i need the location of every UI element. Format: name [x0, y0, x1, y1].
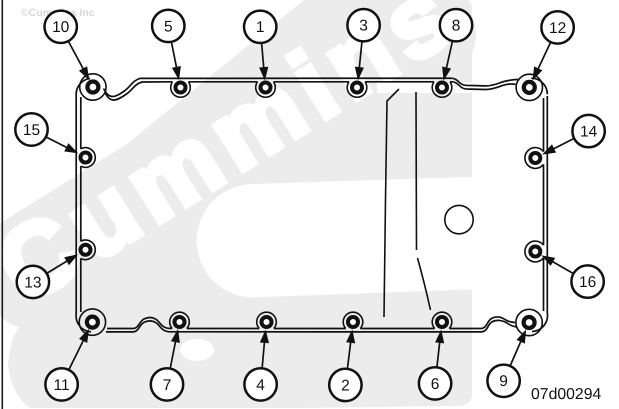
- gasket top boss arc: [171, 82, 191, 97]
- leader arrow for callout 16: [551, 261, 574, 274]
- corner boss around hole 9: [516, 309, 542, 335]
- gasket right boss arc: [525, 241, 544, 262]
- svg-text:3: 3: [359, 18, 368, 35]
- interior feature line B lower curve: [418, 258, 431, 310]
- leader arrow for callout 7: [170, 340, 176, 369]
- svg-text:8: 8: [452, 18, 461, 35]
- callout circle 7: [151, 368, 183, 400]
- leader arrow for callout 9: [510, 339, 522, 366]
- corner boss around hole 12: [516, 74, 542, 100]
- leader arrow for callout 8: [446, 41, 453, 70]
- svg-text:4: 4: [256, 377, 265, 394]
- svg-text:6: 6: [431, 376, 440, 393]
- leader arrow for callout 13: [47, 260, 69, 273]
- callout circle 4: [244, 368, 276, 400]
- watermark: logo mouth slot: [197, 177, 480, 298]
- leader arrow for callout 2: [347, 340, 351, 368]
- svg-text:10: 10: [52, 19, 70, 36]
- gasket left boss arc: [81, 240, 95, 260]
- svg-text:7: 7: [163, 377, 172, 394]
- inner bottom line: [107, 317, 515, 329]
- bolt hole 3: [352, 83, 362, 93]
- callout circle 3: [347, 9, 379, 41]
- bolt hole 1: [261, 83, 271, 93]
- bolt hole 15: [81, 153, 91, 163]
- watermark: Cummins logo body mass: [8, 0, 472, 408]
- bolt hole 16: [530, 247, 540, 257]
- gasket bottom boss arc: [170, 312, 190, 328]
- outer top line with waves: [104, 78, 520, 96]
- callout circle 16: [571, 265, 603, 297]
- leader arrow for callout 12: [537, 42, 551, 71]
- bolt hole 5: [176, 83, 186, 93]
- bolt hole 11: [87, 317, 98, 328]
- leader arrow for callout 6: [437, 340, 440, 367]
- svg-text:14: 14: [580, 124, 598, 141]
- gasket top boss arc: [432, 82, 452, 97]
- leader arrow for callout 1: [262, 43, 264, 70]
- inner top line: [105, 82, 516, 100]
- watermark: white pocket left-bottom: [180, 339, 214, 361]
- inner left line: [80, 97, 82, 312]
- bolt hole 7: [175, 317, 185, 327]
- outer corner arcs: [76, 78, 90, 95]
- inner right line: [543, 98, 545, 311]
- gasket bottom boss arc: [432, 312, 452, 328]
- svg-text:12: 12: [549, 20, 566, 37]
- gasket right boss arc: [525, 148, 544, 169]
- bolt hole 4: [262, 317, 272, 327]
- outer bottom line with waves: [106, 320, 517, 332]
- callout circle 5: [152, 10, 184, 42]
- bolt hole 9: [524, 317, 535, 328]
- callout circle 15: [15, 113, 47, 145]
- callout circle 8: [440, 9, 472, 41]
- bolt hole 2: [348, 317, 358, 327]
- gasket left boss arc: [81, 148, 95, 168]
- gasket bottom boss arc: [257, 312, 277, 328]
- svg-text:11: 11: [54, 377, 70, 394]
- callout circle 10: [45, 11, 77, 43]
- bolt hole 8: [437, 83, 447, 93]
- outer right line: [546, 96, 548, 313]
- callout circle 12: [541, 11, 573, 43]
- callout circle 14: [572, 115, 604, 147]
- leader arrow for callout 4: [262, 340, 265, 368]
- callout circle 9: [487, 365, 519, 397]
- svg-text:07d00294: 07d00294: [531, 386, 601, 403]
- outer left line: [75, 95, 77, 314]
- watermark: word ribbon band: [0, 0, 492, 345]
- leader arrow for callout 11: [69, 339, 84, 370]
- interior feature line B upper: [415, 92, 418, 250]
- bolt hole 14: [530, 153, 540, 163]
- svg-text:2: 2: [341, 377, 350, 394]
- leader arrow for callout 15: [46, 137, 69, 149]
- callout circle 6: [419, 367, 451, 399]
- svg-text:13: 13: [24, 274, 41, 291]
- pan gasket outline: [76, 78, 547, 332]
- callout circle 2: [329, 369, 361, 401]
- svg-text:16: 16: [579, 274, 596, 291]
- interior feature line A: [384, 89, 399, 317]
- callout circle 1: [244, 11, 276, 43]
- corner boss around hole 10: [80, 74, 106, 100]
- bolt hole 13: [81, 245, 91, 255]
- page edge line at left: [1, 0, 3, 409]
- leader arrow for callout 5: [171, 42, 177, 70]
- leader arrow for callout 14: [552, 138, 574, 149]
- svg-text:9: 9: [499, 373, 508, 390]
- leader arrow for callout 10: [68, 41, 84, 71]
- callout circle 11: [45, 368, 77, 400]
- gasket top boss arc: [347, 82, 367, 97]
- gasket bottom boss arc: [343, 312, 363, 328]
- svg-text:5: 5: [164, 18, 173, 35]
- leader arrow for callout 3: [359, 41, 362, 69]
- interior circle boss: [445, 205, 473, 233]
- svg-text:1: 1: [256, 19, 265, 36]
- bolt hole 10: [87, 82, 98, 93]
- watermark: white gap under pan top line: [377, 83, 474, 94]
- corner boss around hole 11: [79, 309, 105, 335]
- bolt hole 6: [437, 317, 447, 327]
- bolt hole 12: [524, 82, 535, 93]
- callout circle 13: [17, 266, 49, 298]
- svg-text:15: 15: [23, 122, 40, 139]
- gasket top boss arc: [256, 82, 276, 97]
